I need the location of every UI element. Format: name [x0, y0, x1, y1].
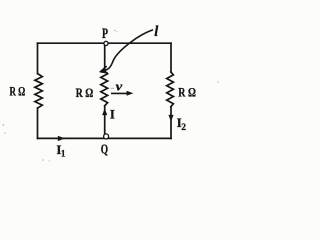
node P terminal circle	[104, 41, 108, 45]
svg-text:Q: Q	[101, 143, 108, 158]
svg-text:R Ω: R Ω	[178, 84, 196, 99]
wire right branch upper	[170, 43, 172, 72]
svg-text:2: 2	[181, 123, 186, 133]
svg-text:R Ω: R Ω	[76, 85, 94, 100]
resistor R3 (right, R ohm)	[167, 72, 174, 107]
current arrow I on middle branch (upward)	[102, 108, 107, 115]
wire middle branch upper	[104, 46, 106, 71]
wire left branch upper	[37, 43, 39, 73]
pointer arrowhead	[100, 67, 107, 73]
current arrow I2 on right branch (downward)	[168, 115, 173, 122]
resistor R2 (middle rod, R ohm)	[101, 71, 108, 106]
velocity arrow v	[111, 92, 130, 94]
wire middle branch lower	[104, 106, 106, 134]
current arrow I1 on bottom rail	[58, 136, 65, 141]
svg-text:I: I	[110, 106, 115, 121]
faint scan dash right of middle resistor	[111, 88, 115, 89]
node Q terminal circle	[104, 134, 109, 139]
pointer curve from label l to rod	[102, 30, 153, 72]
svg-text:R Ω: R Ω	[10, 83, 26, 98]
wire left branch lower	[37, 108, 39, 138]
wire top rail P	[38, 42, 172, 44]
wire bottom rail Q	[38, 137, 172, 139]
svg-text:v: v	[116, 80, 123, 94]
svg-text:P: P	[102, 26, 108, 42]
wire right branch lower	[170, 107, 172, 139]
svg-text:l: l	[154, 24, 158, 40]
svg-text:1: 1	[61, 149, 66, 159]
resistor R1 (left, R ohm)	[35, 74, 42, 108]
